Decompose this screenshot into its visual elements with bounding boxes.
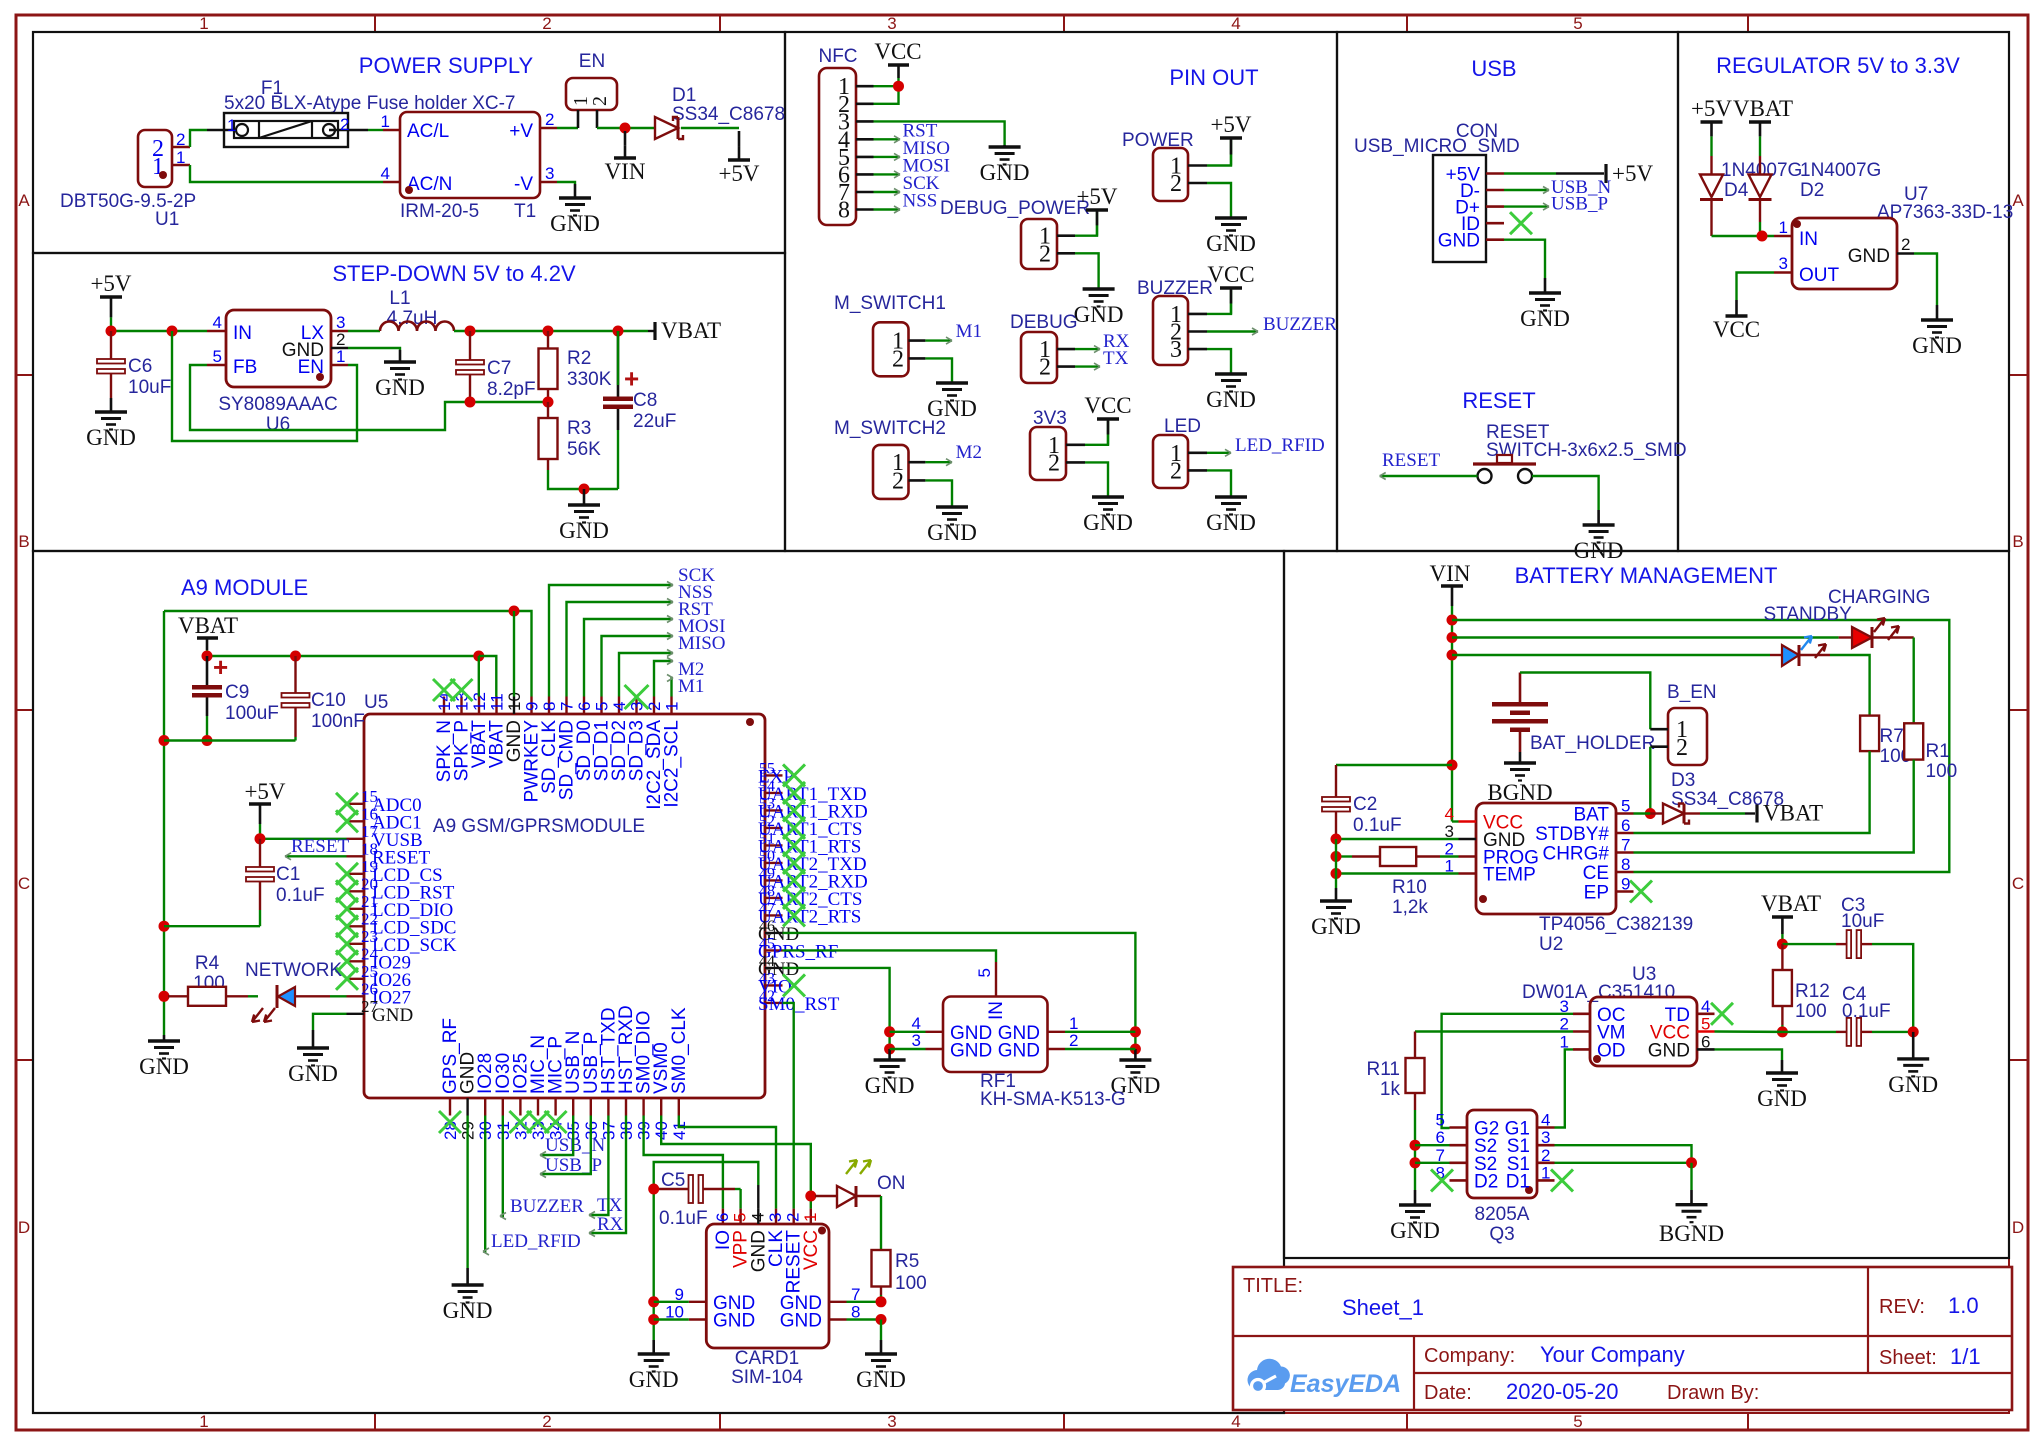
sim holder CARD1 SIM-104 [706, 1224, 829, 1348]
wire C2 gnd vertical [1335, 839, 1337, 888]
svg-text:5: 5 [593, 702, 612, 711]
svg-text:1: 1 [1541, 1163, 1550, 1182]
svg-text:2: 2 [1039, 241, 1051, 267]
wire pin38 RX [589, 1116, 626, 1234]
ground BGND (Q3) [1690, 1163, 1692, 1190]
wire VBAT rail [207, 655, 479, 657]
svg-text:GND: GND [375, 375, 425, 400]
ground (NFC) [1003, 145, 1006, 147]
svg-text:GND: GND [1074, 302, 1124, 327]
svg-text:VBAT: VBAT [178, 613, 238, 638]
power flag VCC (NFC) [888, 63, 909, 66]
svg-text:3: 3 [1779, 254, 1788, 273]
svg-text:R2: R2 [567, 348, 591, 369]
svg-text:A: A [2012, 191, 2024, 210]
svg-text:BGND: BGND [1659, 1221, 1724, 1246]
ground (U2) [1335, 888, 1338, 901]
svg-text:10uF: 10uF [128, 377, 171, 398]
svg-text:D: D [2012, 1218, 2024, 1237]
wire GND rail to pin 10 [513, 611, 515, 697]
svg-text:GND: GND [1520, 306, 1570, 331]
svg-text:BUZZER: BUZZER [1137, 278, 1213, 299]
wire CHARGING led to R1 [1872, 636, 1914, 638]
wire M_SWITCH1 pin2 to ground [925, 358, 952, 383]
wire pin40 VSM0 to SIM VCC [661, 1116, 811, 1209]
svg-text:GND: GND [1206, 231, 1256, 256]
svg-text:VBAT: VBAT [1763, 801, 1823, 826]
svg-text:GND: GND [372, 1005, 413, 1026]
section box POWER SUPPLY [33, 32, 785, 253]
svg-text:GND: GND [1757, 1086, 1807, 1111]
junction [202, 651, 213, 662]
svg-text:GND: GND [629, 1367, 679, 1392]
svg-text:BAT: BAT [1573, 805, 1609, 826]
svg-text:3: 3 [1170, 337, 1182, 363]
wire U6 GND pin to ground [348, 348, 400, 350]
svg-text:B: B [2012, 532, 2023, 551]
section box A9 MODULE [33, 551, 1284, 1413]
svg-text:3: 3 [1541, 1128, 1550, 1147]
svg-text:SIM-104: SIM-104 [731, 1367, 803, 1388]
svg-text:1: 1 [336, 347, 345, 366]
svg-text:USB: USB [1471, 56, 1516, 81]
ground (pin29) [466, 1268, 469, 1285]
wire U3 OD to Q3 G1 [1555, 1049, 1574, 1127]
wire M_SWITCH2 pin2 to ground [925, 480, 952, 507]
capacitor C2 symbol [1335, 765, 1337, 797]
junction [1777, 1026, 1788, 1037]
svg-text:100nF: 100nF [311, 711, 365, 732]
wire RESET to pin 18 [285, 855, 347, 857]
svg-text:GND: GND [1390, 1218, 1440, 1243]
wire ON led to R5 [880, 1196, 882, 1250]
svg-text:7: 7 [1621, 836, 1630, 855]
svg-text:+5V: +5V [90, 271, 131, 296]
wire pin31 BUZZER [500, 1116, 503, 1217]
svg-text:AC/L: AC/L [407, 121, 449, 142]
wire pin35 USB_N [540, 1116, 573, 1156]
capacitor C7 symbol [469, 331, 471, 360]
no-connect X on EP [1630, 881, 1652, 903]
svg-text:GND: GND [1206, 387, 1256, 412]
junction [648, 1296, 659, 1307]
svg-text:D2: D2 [1800, 180, 1824, 201]
wire U3 OC to Q3 G2 [1442, 1014, 1573, 1128]
power flag VBAT (charger) [1755, 805, 1758, 823]
svg-text:EP: EP [1584, 883, 1609, 904]
svg-text:VBAT: VBAT [1733, 96, 1793, 121]
section box STEP-DOWN [33, 253, 785, 551]
wire C2 branch [1336, 764, 1452, 766]
svg-text:R3: R3 [567, 418, 591, 439]
wire U1 pin2 to fuse F1 [190, 130, 207, 147]
no-connect X marks U5 bottom pins [439, 1111, 461, 1133]
ground (A9 left) [163, 1035, 166, 1041]
antenna connector RF1 KH-SMA-K513-G [943, 997, 1048, 1073]
svg-text:1N4007G: 1N4007G [1800, 160, 1881, 181]
wire NFC pin7 [874, 191, 901, 193]
wire BUZZER pin2 net BUZZER [1207, 330, 1258, 332]
wire Q3 S1 pin3 [1555, 1145, 1692, 1163]
diode D3 symbol [1663, 804, 1684, 824]
wire to net label MISO [619, 653, 673, 697]
capacitor C5 symbol [658, 1188, 689, 1190]
wire U3 GND to ground [1715, 1049, 1783, 1060]
U5 right pins 55..42 [765, 774, 783, 776]
junction [255, 833, 266, 844]
svg-text:6: 6 [1621, 816, 1630, 835]
junction [159, 735, 170, 746]
svg-text:100: 100 [1795, 1001, 1827, 1022]
svg-text:10uF: 10uF [1841, 911, 1884, 932]
svg-text:8205A: 8205A [1475, 1204, 1530, 1225]
power flag VBAT (regulator) [1749, 120, 1771, 123]
wire RF1 pin3 [890, 1048, 926, 1050]
svg-text:2: 2 [542, 14, 551, 33]
svg-text:GND: GND [1912, 333, 1962, 358]
svg-text:NSS: NSS [903, 191, 938, 212]
svg-text:B_EN: B_EN [1667, 682, 1717, 703]
wire C1 to GND rail [164, 925, 260, 927]
wire R7 to STDBY# [1634, 751, 1870, 833]
wire VBAT to pin 11 [479, 656, 497, 697]
junction [579, 484, 590, 495]
no-connect X marks U5 left pins [336, 793, 358, 815]
capacitor C6 symbol [110, 331, 112, 359]
svg-text:SM0_CLK: SM0_CLK [669, 1007, 690, 1094]
svg-text:FB: FB [233, 357, 257, 378]
svg-text:GND: GND [1438, 231, 1480, 252]
power flag +5V (step-down in) [100, 295, 122, 298]
wire U5 pin45 GPRS_RF to RF1 IN [783, 950, 997, 962]
svg-text:SS34_C8678: SS34_C8678 [672, 104, 785, 125]
svg-text:2: 2 [340, 115, 349, 134]
resistor R10 symbol [1352, 855, 1380, 857]
junction [1447, 615, 1458, 626]
wire R3 bottom rail [548, 470, 618, 489]
svg-text:TITLE:: TITLE: [1243, 1275, 1303, 1297]
wire R1 to CHRG# [1634, 760, 1914, 853]
svg-text:4: 4 [1231, 14, 1240, 33]
wire C5 to SIM VPP [739, 1189, 741, 1209]
junction [106, 326, 117, 337]
U5 top pins 14..1 [443, 697, 445, 715]
power flag +5V (USB) [1556, 172, 1604, 175]
svg-text:C8: C8 [633, 390, 657, 411]
svg-text:TEMP: TEMP [1483, 865, 1536, 886]
led CHARGING arrows [1874, 618, 1885, 632]
svg-text:5: 5 [1621, 797, 1630, 816]
svg-text:LED_RFID: LED_RFID [491, 1231, 581, 1252]
svg-text:D1: D1 [672, 85, 696, 106]
svg-text:8.2pF: 8.2pF [487, 379, 536, 400]
svg-text:GND: GND [1848, 246, 1890, 267]
svg-text:NFC: NFC [818, 46, 857, 67]
svg-text:U1: U1 [155, 209, 179, 230]
svg-text:0.1uF: 0.1uF [659, 1208, 708, 1229]
section box BATTERY MANAGEMENT [1284, 551, 2009, 1258]
wire VBAT to D2 [1759, 146, 1761, 156]
ground (SIM left) [652, 1340, 655, 1354]
wire DEBUG pin1 RX [1075, 348, 1100, 350]
svg-text:CHARGING: CHARGING [1828, 587, 1930, 608]
svg-text:OUT: OUT [1799, 265, 1840, 286]
svg-text:GND: GND [856, 1367, 906, 1392]
svg-text:3: 3 [887, 1412, 896, 1431]
capacitor C4 symbol [1836, 1031, 1847, 1033]
svg-text:2: 2 [1170, 171, 1182, 197]
regulator U6 SY8089AAAC [226, 310, 331, 387]
junction [1410, 1140, 1421, 1151]
svg-text:T1: T1 [514, 201, 536, 222]
ground (C4) [1912, 1032, 1915, 1059]
svg-text:3: 3 [887, 14, 896, 33]
connector POWER [1153, 148, 1188, 201]
EasyEDA logo [1248, 1359, 1402, 1398]
svg-text:GND: GND [950, 1041, 992, 1062]
svg-text:USB_P: USB_P [1551, 194, 1608, 215]
capacitor C3 symbol [1836, 943, 1847, 945]
svg-text:VCC: VCC [1084, 393, 1131, 418]
wire D2/D4 to U7 IN [1759, 222, 1761, 236]
junction [159, 991, 170, 1002]
svg-text:REGULATOR 5V to 3.3V: REGULATOR 5V to 3.3V [1716, 53, 1960, 78]
ground (LED) [1230, 496, 1233, 497]
wire NFC pin2 to VCC [874, 86, 899, 104]
section box PIN OUT [785, 32, 1337, 551]
wire NFC pin8 [874, 208, 901, 210]
wire pin29 GND to ground [466, 1116, 468, 1269]
svg-text:AP7363-33D-13: AP7363-33D-13 [1877, 202, 2013, 223]
svg-text:3: 3 [766, 1213, 785, 1222]
wire to net label SCK [549, 585, 673, 697]
wire rail VIN to CHARGING led [1452, 636, 1839, 638]
junction VIN node [620, 123, 631, 134]
junction [613, 326, 624, 337]
svg-text:RESET: RESET [291, 836, 349, 857]
wire GND left rail down [163, 611, 165, 1035]
junction [884, 1026, 895, 1037]
connector DEBUG_POWER [1021, 219, 1057, 269]
svg-text:2: 2 [176, 130, 185, 149]
svg-text:LED: LED [1164, 416, 1201, 437]
wire L1 to VBAT [454, 330, 648, 332]
connector NFC [819, 68, 856, 225]
svg-text:M_SWITCH1: M_SWITCH1 [834, 293, 946, 314]
svg-text:+V: +V [509, 121, 533, 142]
ground (RF1 right) [1134, 1049, 1137, 1060]
junction [1777, 939, 1788, 950]
svg-text:VBAT: VBAT [661, 318, 721, 343]
wire LED pin2 to ground [1207, 470, 1231, 496]
svg-text:KH-SMA-K513-G: KH-SMA-K513-G [980, 1089, 1126, 1110]
wire 3V3 pin1 to VCC [1085, 421, 1108, 445]
wire U7 GND to ground [1914, 254, 1937, 306]
wire BAT to D3 [1634, 812, 1651, 814]
svg-text:1: 1 [176, 148, 185, 167]
svg-text:BUZZER: BUZZER [1263, 314, 1337, 335]
led ON arrows [846, 1160, 857, 1174]
svg-text:DEBUG_POWER: DEBUG_POWER [940, 198, 1090, 219]
resistor R7 symbol [1860, 716, 1879, 752]
wire NFC pin3 to ground [874, 121, 1005, 145]
wire U3 VCC to R12/C4 [1715, 1030, 1783, 1033]
wire EN pin2 to VIN node and D1 [597, 127, 655, 129]
svg-text:100: 100 [1926, 761, 1958, 782]
ground (POWER) [1230, 217, 1233, 218]
wire LED pin1 net LED_RFID [1207, 452, 1231, 454]
svg-text:100uF: 100uF [225, 703, 279, 724]
svg-text:GND: GND [1574, 538, 1624, 563]
wire switch to ground [1532, 476, 1599, 510]
svg-text:POWER: POWER [1122, 130, 1194, 151]
svg-text:CARD1: CARD1 [735, 1348, 799, 1369]
svg-text:REV:: REV: [1879, 1296, 1925, 1318]
wire R11 to S2 [1414, 1110, 1416, 1190]
svg-text:STEP-DOWN 5V to 4.2V: STEP-DOWN 5V to 4.2V [332, 261, 576, 286]
svg-text:1/1: 1/1 [1950, 1344, 1981, 1369]
svg-text:RESET: RESET [1382, 450, 1440, 471]
ground (power supply) [574, 184, 577, 198]
capacitor C10 symbol [294, 656, 296, 693]
junction [893, 81, 904, 92]
wire rail VIN to STANDBY led [1452, 654, 1770, 656]
wire SIM pins 9 10 [654, 1301, 689, 1303]
svg-text:R11: R11 [1367, 1059, 1400, 1080]
wire T1 -V to ground [557, 182, 575, 184]
svg-text:VBAT: VBAT [1761, 891, 1821, 916]
svg-text:C: C [18, 874, 30, 893]
svg-text:RESET: RESET [1462, 388, 1535, 413]
svg-text:22uF: 22uF [633, 411, 676, 432]
wire U5 pin46 GND to RF1 side [783, 933, 1136, 1049]
no-connect X marks U5 right pins [783, 764, 805, 786]
wire NFC pin4 [874, 138, 901, 140]
resistor R5 symbol [872, 1250, 891, 1287]
svg-text:Company:: Company: [1424, 1345, 1515, 1367]
svg-text:TX: TX [597, 1195, 623, 1216]
svg-text:C1: C1 [276, 864, 300, 885]
wire VIN vertical [1451, 606, 1453, 822]
wire DEBUG_POWER pin2 to ground [1075, 253, 1099, 288]
ground (M_SWITCH2) [951, 506, 954, 509]
svg-text:IN: IN [986, 1001, 1007, 1020]
svg-text:D2: D2 [1474, 1171, 1498, 1192]
wire DEBUG pin2 TX [1075, 365, 1100, 367]
svg-text:U2: U2 [1539, 934, 1563, 955]
svg-text:VIN: VIN [1430, 561, 1471, 586]
svg-text:1: 1 [381, 112, 390, 131]
svg-text:GND: GND [1206, 510, 1256, 535]
ground (RESET) [1597, 510, 1600, 525]
svg-text:GND: GND [139, 1054, 189, 1079]
ground (RF1 left) [888, 1049, 891, 1060]
svg-text:+5V: +5V [1612, 161, 1653, 186]
svg-text:IN: IN [233, 323, 252, 344]
svg-text:2: 2 [1901, 235, 1910, 254]
svg-text:9: 9 [523, 702, 542, 711]
wire POWER pin1 to +5V [1207, 140, 1231, 166]
svg-text:M2: M2 [956, 442, 982, 463]
svg-text:GND: GND [713, 1311, 755, 1332]
capacitor C1 symbol [259, 839, 261, 867]
svg-text:4: 4 [381, 164, 390, 183]
junction [465, 397, 476, 408]
resistor R1 symbol [1904, 723, 1923, 759]
power flag +5V (regulator) [1701, 120, 1723, 123]
svg-text:M1: M1 [678, 676, 704, 697]
svg-text:+5V: +5V [244, 779, 285, 804]
wire U2 TEMP [1336, 872, 1459, 874]
wire pin30 LED_RFID [483, 1116, 485, 1252]
svg-text:D1: D1 [1506, 1171, 1530, 1192]
svg-text:VIN: VIN [605, 159, 646, 184]
resistor R12 symbol [1781, 944, 1783, 970]
power flag VCC (3V3) [1097, 417, 1119, 420]
connector BUZZER [1153, 296, 1188, 365]
junction [884, 1044, 895, 1055]
power flag +5V (power supply out) [738, 131, 741, 147]
wire pin36 USB_P [540, 1116, 591, 1175]
mosfet Q3 8205A [1467, 1110, 1537, 1198]
svg-text:OD: OD [1597, 1040, 1626, 1061]
junction [1331, 851, 1342, 862]
wire U3 VM to R11 [1415, 1030, 1573, 1032]
svg-text:NETWORK: NETWORK [245, 960, 342, 981]
wire DEBUG_POWER pin1 to +5V [1075, 212, 1097, 236]
svg-text:5: 5 [731, 1213, 750, 1222]
svg-text:U6: U6 [266, 414, 290, 435]
wire M_SWITCH1 pin1 net M1 [925, 339, 952, 341]
svg-text:GND: GND [443, 1298, 493, 1323]
svg-text:-V: -V [514, 174, 533, 195]
svg-text:VCC: VCC [874, 39, 921, 64]
ground (M_SWITCH1) [951, 382, 954, 385]
svg-text:AC/N: AC/N [407, 174, 452, 195]
svg-text:GND: GND [927, 520, 977, 545]
svg-text:R4: R4 [195, 953, 220, 974]
svg-text:2: 2 [892, 346, 904, 372]
svg-text:C10: C10 [311, 690, 346, 711]
wire T1 +V to EN connector [557, 127, 578, 129]
junction [1757, 231, 1768, 242]
svg-text:BUZZER: BUZZER [510, 1196, 584, 1217]
wire D1 to +5V [681, 127, 739, 129]
svg-text:100: 100 [895, 1273, 927, 1294]
connector 3V3 [1030, 427, 1066, 480]
svg-text:1: 1 [199, 1412, 208, 1431]
svg-text:4: 4 [1231, 1412, 1240, 1431]
wire BUZZER pin3 to ground [1207, 349, 1231, 373]
led STANDBY arrows [1801, 636, 1812, 650]
svg-text:3: 3 [545, 164, 554, 183]
resistor R2 symbol [547, 331, 549, 349]
power flag +5V (DEBUG_POWER) [1086, 208, 1108, 211]
svg-text:VCC: VCC [1713, 317, 1760, 342]
ground (Q3 S2) [1414, 1190, 1417, 1205]
wire to net label M2 [654, 661, 673, 697]
wire pin37 TX [589, 1116, 608, 1216]
svg-text:5: 5 [1701, 1015, 1710, 1034]
charger U2 TP4056_C382139 [1476, 803, 1616, 914]
svg-text:Your Company: Your Company [1540, 1342, 1685, 1367]
svg-text:5: 5 [1573, 1412, 1582, 1431]
svg-text:1: 1 [1779, 218, 1788, 237]
wire +5V rail to U6 IN [111, 330, 207, 332]
wire VBAT to C3 [1782, 943, 1836, 945]
junction [648, 1314, 659, 1325]
svg-text:R10: R10 [1392, 877, 1427, 898]
